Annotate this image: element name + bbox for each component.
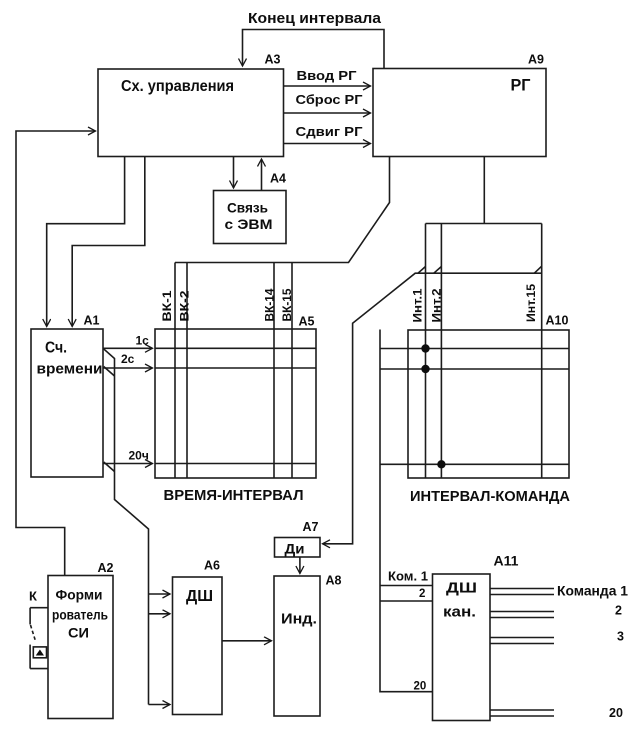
wire output 20 (pair) — [490, 710, 554, 716]
wire A10 row 2 — [380, 368, 569, 370]
block A5 matrix ВРЕМЯ-ИНТЕРВАЛ — [155, 329, 316, 478]
block A6 ДШ — [173, 577, 223, 715]
svg-text:Инт.15: Инт.15 — [526, 283, 538, 322]
switch K bottom stub — [30, 668, 48, 670]
wire 2с (A1 to A5) — [103, 367, 153, 369]
svg-text:А6: А6 — [204, 559, 220, 573]
wire Инт.15 vertical — [541, 224, 543, 479]
svg-text:ВК-2: ВК-2 — [180, 291, 192, 322]
svg-text:А2: А2 — [98, 561, 114, 575]
wire bus arrow into A6 (input 3) — [149, 704, 171, 706]
svg-text:Инд.: Инд. — [281, 611, 317, 628]
svg-text:ДШ: ДШ — [186, 588, 213, 605]
svg-text:2: 2 — [419, 588, 425, 600]
svg-text:ИНТЕРВАЛ-КОМАНДА: ИНТЕРВАЛ-КОМАНДА — [410, 489, 571, 505]
svg-text:1с: 1с — [136, 334, 150, 348]
wire Ком.1 stub into A11 — [380, 585, 433, 587]
svg-text:Ди: Ди — [285, 542, 305, 557]
wire A10 top rail — [426, 223, 542, 225]
switch K button triangle — [36, 650, 44, 656]
wire A2 top to A3 left (feedback) — [16, 131, 96, 576]
svg-text:Сч.: Сч. — [45, 340, 67, 357]
svg-text:СИ: СИ — [68, 625, 89, 641]
block A2 Формирователь СИ — [48, 576, 113, 719]
wire bus arrow into A6 (input 1) — [149, 593, 171, 595]
wire ВК-1 vertical — [174, 263, 176, 479]
wire A3 bottom to A1 top (second) — [72, 157, 145, 327]
wire output 2 (pair) — [490, 612, 554, 618]
junction dot Инт.1 row 1 — [421, 344, 429, 352]
svg-text:3: 3 — [617, 630, 624, 644]
block A9 РГ — [373, 69, 546, 157]
wire bus Инт to Ди — [323, 273, 542, 544]
block A7 Ди — [275, 538, 321, 558]
wire A9 bottom to A5 top rail — [175, 157, 390, 263]
wire A5 row 1с — [155, 347, 316, 349]
wire Сдвиг РГ (A3 to A9) — [284, 143, 371, 145]
svg-text:Сброс РГ: Сброс РГ — [296, 93, 363, 107]
wire A10 row 3 — [380, 463, 569, 465]
switch K lever (dashed) — [31, 625, 36, 641]
svg-text:К: К — [29, 589, 37, 604]
svg-text:А11: А11 — [494, 554, 520, 569]
junction dot Инт.2 row 3 — [437, 460, 445, 468]
block A1 Сч. времени — [31, 329, 103, 477]
svg-text:Связь: Связь — [227, 200, 268, 216]
wire A3 bottom to A1 top (first) — [47, 157, 125, 327]
svg-text:ВК-15: ВК-15 — [282, 288, 294, 322]
junction dot Инт.1 row 2 — [421, 365, 429, 373]
svg-text:20ч: 20ч — [129, 449, 149, 463]
wire Ввод РГ (A3 to A9) — [284, 85, 371, 87]
svg-text:Инт.1: Инт.1 — [413, 288, 425, 323]
wire Сброс РГ (A3 to A9) — [284, 112, 371, 114]
wire Инт.2 vertical — [440, 224, 442, 479]
svg-text:А5: А5 — [299, 315, 315, 329]
wire Конец интервала feedback (A9 top to A3 top) — [243, 30, 385, 69]
svg-text:Форми: Форми — [56, 587, 103, 603]
block A10 matrix ИНТЕРВАЛ-КОМАНДА — [408, 330, 569, 478]
svg-text:Сх. управления: Сх. управления — [121, 78, 234, 95]
svg-text:ВК-1: ВК-1 — [162, 290, 174, 322]
svg-text:Сдвиг РГ: Сдвиг РГ — [296, 125, 363, 139]
svg-text:Инт.2: Инт.2 — [432, 289, 444, 323]
svg-text:кан.: кан. — [443, 604, 476, 621]
svg-text:времени: времени — [37, 361, 103, 378]
wire A10 row 1 — [380, 348, 569, 350]
svg-text:ВК-14: ВК-14 — [265, 288, 277, 322]
svg-text:20: 20 — [414, 681, 427, 693]
wire ВК-15 vertical — [291, 263, 293, 479]
svg-text:20: 20 — [609, 706, 623, 720]
svg-text:А9: А9 — [528, 53, 544, 67]
wire A4 to A3 (up arrow) — [261, 159, 263, 191]
wire tick 20ч joins bus — [104, 462, 115, 472]
wire 20ч (A1 to A5) — [103, 463, 153, 465]
wire bus A10 to A11 (left vertical) — [380, 330, 433, 692]
svg-text:ДШ: ДШ — [446, 580, 477, 597]
wire tick Инт.15 joins bus — [534, 266, 541, 273]
svg-text:Конец интервала: Конец интервала — [248, 10, 382, 27]
block A4 Связь с ЭВМ — [214, 191, 287, 244]
wire bus arrow into A6 (input 2) — [149, 613, 171, 615]
svg-text:А8: А8 — [326, 574, 342, 588]
svg-text:А4: А4 — [270, 172, 286, 186]
wire 1с (A1 to A5) — [103, 347, 153, 349]
wire Ком.2 stub into A11 — [380, 600, 433, 602]
svg-text:Команда 1: Команда 1 — [557, 584, 628, 599]
wire A3 to A4 (down arrow) — [233, 157, 235, 189]
wire bus A1 to A6 (vertical with jogs) — [103, 348, 149, 704]
switch K top stub — [30, 607, 48, 609]
wire A6 to A8 — [222, 640, 272, 642]
wire ВК-14 vertical — [273, 263, 275, 479]
svg-text:рователь: рователь — [52, 607, 108, 623]
svg-text:А1: А1 — [84, 314, 100, 328]
wire A9 bottom to A10 rail — [483, 157, 485, 224]
wire tick Инт.2 joins bus — [434, 267, 442, 274]
wire tick Инт.1 joins bus — [418, 267, 426, 274]
wire Ди to A8 (down arrow) — [299, 557, 301, 574]
switch K upper vertical — [29, 608, 31, 625]
wire ВК-2 vertical — [186, 263, 188, 479]
svg-text:РГ: РГ — [511, 76, 531, 95]
svg-text:с ЭВМ: с ЭВМ — [225, 216, 273, 232]
block A11 ДШ кан. — [433, 574, 491, 721]
svg-text:2: 2 — [615, 604, 622, 618]
wire A5 row 20ч — [155, 463, 316, 465]
svg-text:А3: А3 — [265, 53, 281, 67]
wire tick 2с joins bus — [104, 367, 115, 377]
switch K lower vertical — [29, 645, 31, 669]
block A8 Инд. — [274, 576, 320, 716]
svg-text:ВРЕМЯ-ИНТЕРВАЛ: ВРЕМЯ-ИНТЕРВАЛ — [164, 487, 304, 504]
wire output Команда 1 (pair) — [490, 589, 554, 595]
svg-text:Ком. 1: Ком. 1 — [388, 570, 428, 584]
wire output 3 (pair) — [490, 638, 554, 644]
svg-text:2с: 2с — [121, 352, 135, 366]
switch K button box — [33, 647, 46, 658]
wire A5 row 2с — [155, 367, 316, 369]
svg-text:А7: А7 — [303, 520, 319, 534]
block A3 Сх. управления — [98, 69, 284, 157]
svg-text:Ввод РГ: Ввод РГ — [297, 69, 357, 83]
svg-text:А10: А10 — [546, 314, 569, 328]
wire Инт.1 vertical — [425, 224, 427, 479]
